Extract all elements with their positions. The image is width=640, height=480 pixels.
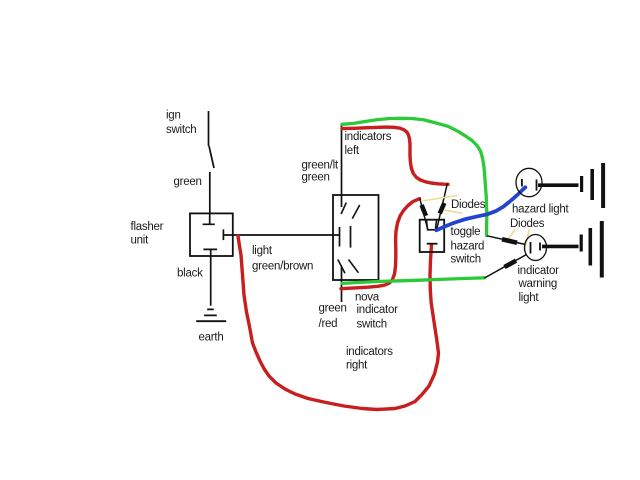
wire: green horizontal (bottom, to warning light diode) [342,278,485,284]
flasher terminal: bottom pin [203,249,217,256]
toggle actuator notch [426,220,436,230]
wire: green loop nova-top to right side (indicators left feed) [342,118,487,235]
toggle bottom terminal bar [427,243,438,245]
nova contact top-left [341,203,346,214]
svg-text:hazard light: hazard light [512,203,570,215]
svg-text:switch: switch [451,253,481,265]
svg-text:indicator: indicator [357,304,399,316]
diode D3 lead (from green vertical to warning light) [487,236,526,245]
indicator warning light lamp L2 [525,235,547,261]
svg-text:toggle: toggle [451,226,481,238]
wire: ign switch feed (upper vertical) [208,111,210,146]
diode D2 body [440,203,445,214]
svg-text:green/lt: green/lt [302,159,339,171]
earth bar large (hazard) [601,163,605,208]
hazard light lamp L1 [516,168,542,196]
nova pole bar right [350,226,352,248]
svg-text:light: light [519,292,540,304]
svg-text:green: green [319,303,347,315]
earth bar medium (warning) [588,228,592,266]
wire: flasher to earth (black) [210,256,212,306]
svg-text:indicator: indicator [518,265,560,277]
svg-text:indicators: indicators [345,131,392,143]
diode pointer line 2 (yellow) [444,210,463,213]
svg-text:earth: earth [199,332,224,344]
toggle hazard switch box [420,220,445,252]
nova indicator switch box [333,195,379,280]
wire: hazard light to earth bars [538,183,579,187]
svg-text:indicators: indicators [346,346,393,358]
lamp L1 right pin [536,180,538,191]
svg-text:nova: nova [355,291,380,303]
wire: green from ign switch to flasher unit [209,172,211,213]
svg-text:ign: ign [166,109,181,121]
ground: earth symbol [196,309,226,321]
flasher terminal: top pin [203,213,215,224]
wire: nova switch top feed [341,125,343,208]
svg-text:unit: unit [131,235,150,247]
earth bar small (warning) [580,235,583,252]
svg-text:switch: switch [357,318,387,330]
lamp L2 left pin [530,242,532,254]
wire: flasher to nova switch (light green/brown) [224,234,340,236]
svg-text:/red: /red [319,318,338,330]
wire: red flasher to toggle hazard switch (big bottom loop) [238,236,439,410]
wire: red from nova-top to toggle switch (S-curve) [342,127,448,184]
wire: red from nova-bottom to toggle left diode [341,199,420,289]
svg-text:flasher: flasher [131,221,164,233]
wire: warning light to earth bars [542,245,579,249]
wire: nova switch bottom (green/red) [341,267,343,302]
diode pointer line 1 (yellow) [423,196,458,202]
nova contact bottom-right [349,260,359,273]
svg-text:switch: switch [166,124,196,136]
svg-text:green: green [302,172,330,184]
diode pointer line 4 (yellow) [524,229,530,251]
svg-text:right: right [346,360,368,372]
nova contact bottom-left [338,260,345,274]
earth bar large (warning) [600,221,604,278]
svg-text:hazard: hazard [451,240,485,252]
nova pole bar left [339,227,341,247]
svg-text:green/brown: green/brown [252,261,313,273]
diode D1 lead (left) [420,199,428,229]
lamp L2 right pin [539,243,541,251]
diode D2 lead (right) [437,184,448,230]
svg-text:light: light [252,245,273,257]
svg-text:left: left [345,145,360,157]
diode pointer line 3 (yellow) [506,229,516,243]
flasher unit box [190,213,233,256]
diode D4 lead (from green horizontal to warning light) [485,255,527,279]
diode D4 body [505,261,517,267]
lamp L1 left pin [521,179,523,187]
svg-text:green: green [174,176,202,188]
svg-text:Diodes: Diodes [510,218,545,230]
diode D3 body [502,239,517,243]
earth bar small (hazard) [580,176,583,192]
svg-text:black: black [177,267,203,279]
flasher terminal: right pin [222,229,224,240]
switch SW1 blade (ign switch) [209,146,214,168]
earth bar medium (hazard) [590,169,594,200]
svg-text:warning: warning [518,278,558,290]
svg-text:Diodes: Diodes [451,199,486,211]
diode D1 body [422,205,426,216]
nova contact top-right [352,205,359,219]
wire: blue toggle to hazard light [436,187,525,230]
